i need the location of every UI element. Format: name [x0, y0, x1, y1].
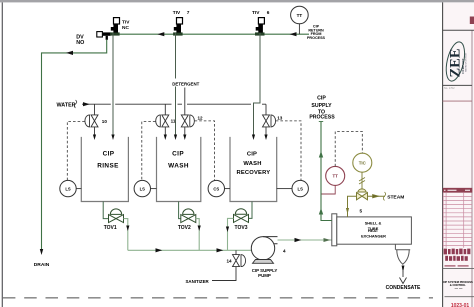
svg-text:6: 6 [267, 10, 270, 16]
svg-text:CIP: CIP [317, 96, 326, 102]
svg-text:TT: TT [333, 174, 339, 179]
tank CIP WASH RECOVERY [230, 137, 277, 202]
svg-text:LS: LS [298, 186, 304, 191]
wire: water line [82, 103, 266, 105]
svg-text:WASH: WASH [243, 161, 261, 167]
valve TOV3 [226, 202, 252, 251]
svg-text:SANITIZER: SANITIZER [186, 279, 210, 284]
svg-text:CIP: CIP [247, 152, 257, 158]
stamp scribbles [444, 249, 471, 267]
svg-text:RINSE: RINSE [97, 163, 119, 170]
svg-text:— —: — — [455, 287, 463, 291]
ZEE logo [443, 40, 468, 83]
top gray window bar [0, 0, 474, 2]
tank CIP RINSE [81, 137, 128, 202]
svg-text:PROCESS: PROCESS [309, 115, 335, 121]
arrow drain [40, 249, 43, 255]
instrument LS tank1 [60, 180, 82, 196]
svg-text:DETERGENT: DETERGENT [172, 82, 199, 87]
wire: steam inlet [368, 195, 386, 197]
signal LS2 to valve 11 [142, 122, 156, 181]
wire: CIP return line [103, 33, 309, 35]
signal LS1 to valve 10 [67, 122, 85, 181]
svg-text:13: 13 [277, 115, 283, 120]
svg-text:EXCHANGER: EXCHANGER [361, 234, 386, 239]
svg-text:CIP: CIP [103, 150, 115, 157]
white header dashes [444, 189, 470, 191]
svg-text:SUPPLY: SUPPLY [311, 103, 332, 109]
svg-text:TT: TT [297, 13, 303, 18]
svg-text:TOV3: TOV3 [235, 225, 248, 231]
svg-text:SANITATION DIVISION: SANITATION DIVISION [465, 52, 468, 72]
flow arrow on return line [290, 32, 297, 36]
valve 12 (detergent to wash) [181, 115, 194, 127]
wire: steam to HX [348, 196, 357, 208]
left page border [2, 2, 3, 307]
valve 10 (water to rinse) [94, 104, 96, 114]
wire: suction manifold [128, 249, 252, 251]
steam trap [395, 244, 410, 283]
valve TOV1 [103, 202, 129, 251]
wire: detergent line [184, 88, 186, 115]
svg-text:10: 10 [102, 119, 108, 124]
svg-text:4: 4 [283, 248, 286, 253]
svg-text:LS: LS [65, 186, 71, 191]
instrument TT (supply) [322, 166, 345, 194]
revision table [443, 188, 472, 248]
valve TIV NC [110, 18, 120, 36]
svg-text:TIV: TIV [252, 10, 260, 16]
wire: drain line from DV valve [42, 40, 107, 251]
svg-text:CIP: CIP [172, 150, 184, 157]
instrument LS tank3 right [277, 180, 309, 196]
svg-text:TIV: TIV [173, 10, 181, 16]
svg-text:TIC: TIC [359, 161, 367, 166]
signal CS to valve 12 [195, 121, 215, 181]
wire: TIV7 drop into tank 2 [175, 33, 177, 79]
tank CIP WASH [157, 137, 201, 202]
svg-text:RECOVERY: RECOVERY [236, 170, 270, 176]
svg-text:PUMP: PUMP [258, 273, 271, 278]
wire: TIV6 drop with jog into tank 3 [254, 33, 261, 136]
svg-text:STEAM: STEAM [387, 195, 404, 201]
svg-text:7: 7 [187, 10, 190, 16]
wire: pump discharge to HX [278, 239, 332, 241]
svg-text:No. 1702: No. 1702 [444, 86, 455, 90]
valve TIV 7 [173, 18, 183, 36]
svg-text:LS: LS [140, 186, 146, 191]
signal TT to TIC dashed [335, 132, 362, 167]
valve 13 (water to recovery) [265, 104, 267, 114]
svg-text:14: 14 [227, 258, 233, 263]
signal TIC to valve 5 [359, 172, 365, 189]
svg-text:11: 11 [171, 119, 176, 124]
svg-text:SHELL &: SHELL & [365, 221, 382, 226]
valve TOV2 [178, 202, 201, 251]
instrument LS tank2 [134, 180, 156, 196]
pump CIP SUPPLY PUMP [251, 237, 277, 279]
instrument CS tank3 [208, 180, 230, 196]
instrument TIC [353, 153, 372, 172]
heat exchanger shell [332, 214, 412, 246]
svg-text:TOV1: TOV1 [104, 225, 117, 231]
svg-text:HEAT: HEAT [368, 228, 379, 233]
bottom boundary dashed line [3, 297, 433, 299]
signal LS3 to valve 13 [276, 121, 301, 181]
valve DV NO [97, 32, 111, 40]
flow arrow on return line [157, 32, 164, 36]
wire: HX outlet to process riser [321, 122, 332, 221]
svg-text:NC: NC [122, 25, 129, 31]
svg-text:WASH: WASH [168, 163, 189, 170]
svg-text:CIP SUPPLY: CIP SUPPLY [252, 268, 278, 273]
svg-text:TOV2: TOV2 [178, 225, 191, 231]
instrument TT (top) [291, 6, 309, 34]
svg-text:1023-01: 1023-01 [451, 303, 470, 307]
valve 11 (water to wash) [164, 104, 166, 114]
valve TIV 6 [255, 18, 265, 36]
svg-text:TIV: TIV [122, 19, 130, 25]
wire: TIV NC drop into tank 1 [112, 33, 114, 136]
svg-text:12: 12 [198, 115, 204, 120]
svg-text:NO: NO [76, 40, 84, 46]
valve 14 (sanitizer) [212, 250, 246, 280]
svg-text:CS: CS [213, 186, 219, 191]
svg-text:5: 5 [360, 209, 363, 214]
svg-text:COMPANY: COMPANY [461, 58, 465, 74]
svg-text:PROCESS: PROCESS [307, 36, 326, 40]
svg-text:WATER: WATER [57, 102, 76, 108]
valve 5 steam control [357, 189, 368, 214]
svg-text:DRAIN: DRAIN [34, 262, 50, 268]
svg-text:CONDENSATE: CONDENSATE [386, 285, 421, 291]
